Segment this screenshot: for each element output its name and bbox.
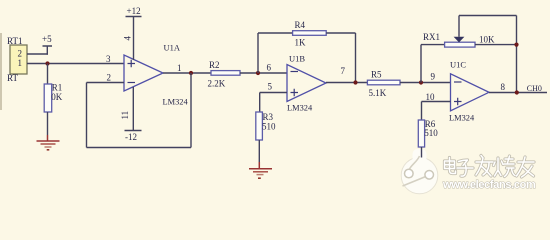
wire to R4 left [258, 32, 293, 34]
svg-text:LM324: LM324 [163, 97, 189, 106]
wire U1A feedback up [86, 83, 88, 148]
svg-text:R2: R2 [209, 60, 220, 70]
svg-text:2: 2 [107, 73, 112, 83]
resistor R6 510 [418, 119, 438, 147]
svg-text:R4: R4 [295, 20, 306, 30]
svg-text:RT: RT [7, 73, 18, 83]
wire R4 down to U1B output [355, 33, 357, 83]
wire U1A output to R2 [163, 72, 211, 74]
svg-text:U1B: U1B [289, 54, 305, 64]
svg-text:510: 510 [262, 122, 276, 132]
wire feedback to U1A pin2 [87, 82, 125, 84]
svg-text:-12: -12 [125, 132, 137, 142]
wire R3 to ground [258, 140, 260, 162]
svg-text:10: 10 [426, 92, 436, 102]
svg-text:5.1K: 5.1K [369, 88, 387, 98]
sheet edge line [0, 33, 2, 110]
wire pin10 of U1C [422, 101, 451, 103]
power +5 [42, 34, 52, 55]
svg-text:LM324: LM324 [449, 113, 475, 122]
svg-text:+5: +5 [42, 34, 52, 44]
wire RT1 pin1 to U1A pin3 [27, 63, 124, 65]
wire U1C output to CH0 [489, 92, 547, 94]
wire RX1 right terminal [475, 44, 517, 46]
wire junction up to R4 [257, 33, 259, 73]
resistor R5 5.1K [367, 70, 400, 99]
resistor R3 510 [256, 112, 276, 140]
svg-text:11: 11 [120, 111, 130, 120]
wire R5 to U1C pin9 [400, 82, 451, 84]
svg-text:R3: R3 [263, 112, 274, 122]
svg-text:6: 6 [267, 63, 272, 73]
svg-text:1K: 1K [295, 38, 307, 48]
ground under R1 [37, 141, 60, 150]
svg-text:5: 5 [268, 82, 273, 92]
junction node R5/RX1 [419, 80, 423, 84]
svg-text:CH0: CH0 [527, 84, 542, 93]
svg-text:2.2K: 2.2K [208, 79, 226, 89]
svg-text:3: 3 [106, 54, 111, 64]
svg-text:www.elecfans.com: www.elecfans.com [442, 179, 536, 191]
wire RX1 top across [459, 15, 517, 17]
svg-text:U1C: U1C [450, 60, 466, 70]
junction node U1B output / R4 [353, 80, 357, 84]
svg-text:1: 1 [18, 58, 23, 68]
wire RX1 wiper up [458, 16, 460, 37]
junction node RT1/R1/U1A [45, 61, 49, 65]
svg-text:2: 2 [18, 49, 23, 59]
svg-text:8: 8 [501, 82, 506, 92]
svg-text:RT1: RT1 [7, 36, 22, 46]
wire to RX1 body [421, 44, 445, 46]
svg-text:510: 510 [424, 128, 438, 138]
wire R4 right [326, 32, 355, 34]
svg-text:RX1: RX1 [423, 32, 440, 42]
junction node RX1 right [514, 43, 518, 47]
svg-text:+12: +12 [127, 6, 141, 16]
thermistor RT1 [7, 36, 27, 83]
wire pin5 down to R3 [259, 93, 261, 113]
svg-text:U1A: U1A [164, 43, 181, 53]
resistor R4 1K [293, 20, 327, 48]
pin 4 power line of U1A [133, 17, 135, 61]
wire R2 to U1B pin6 [240, 72, 287, 74]
power -12 [125, 131, 142, 143]
potentiometer RX1 10K [423, 32, 495, 47]
op-amp U1C [426, 60, 506, 123]
wire pin10 down to R6 [421, 102, 423, 121]
svg-text:LM324: LM324 [287, 103, 313, 112]
svg-text:R5: R5 [371, 70, 382, 80]
wire R1 to ground [47, 112, 49, 135]
svg-text:0K: 0K [51, 92, 63, 102]
wire junction up to RX1 left [420, 45, 422, 83]
wire RX1 right side down [516, 16, 518, 93]
svg-text:1: 1 [177, 63, 182, 73]
svg-text:7: 7 [341, 66, 346, 76]
junction node U1A output [189, 71, 193, 75]
watermark logo circle [401, 149, 438, 194]
watermark url text [442, 179, 536, 191]
svg-text:R1: R1 [52, 83, 63, 93]
power +12 [126, 6, 142, 17]
wire junction down to R1 [47, 64, 49, 85]
wire U1B output to R5 [326, 82, 367, 84]
ground under R3 [249, 169, 272, 178]
svg-text:9: 9 [431, 72, 436, 82]
watermark chinese text [445, 156, 535, 178]
resistor R1 0K [44, 83, 63, 113]
op-amp U1A [106, 43, 188, 107]
svg-text:10K: 10K [479, 35, 495, 45]
wire U1A feedback down [190, 73, 192, 148]
wire R6 down [421, 147, 423, 158]
junction node output / RX1 [515, 90, 519, 94]
wire U1A feedback bottom [87, 147, 192, 149]
op-amp U1B [267, 54, 346, 113]
junction node R2/R4 [256, 71, 260, 75]
svg-text:4: 4 [123, 36, 133, 41]
wire pin5 of U1B [260, 92, 287, 94]
resistor R2 2.2K [208, 60, 241, 89]
wire RT1 pin2 to +5 [27, 53, 48, 55]
pin 11 power line of U1A [132, 87, 134, 131]
